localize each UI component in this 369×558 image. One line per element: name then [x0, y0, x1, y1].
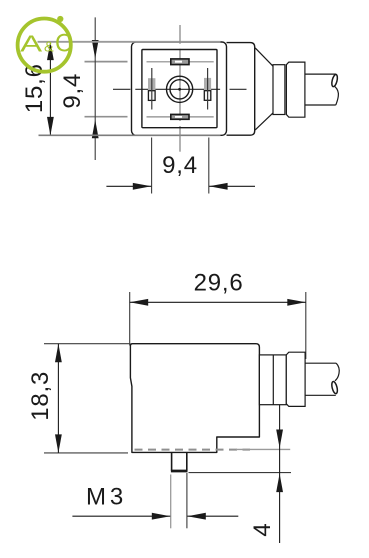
29,6: extension line right [305, 292, 307, 359]
gland taper lower [255, 113, 273, 130]
body side block [227, 43, 255, 136]
18,3: dimension line [55, 344, 62, 453]
gland section 1+2 bottom view [259, 355, 286, 405]
svg-text:4: 4 [249, 523, 276, 536]
svg-text:18,3: 18,3 [27, 371, 54, 421]
svg-text:&: & [44, 40, 54, 56]
29,6: extension line left [129, 292, 131, 346]
svg-text:9,4: 9,4 [162, 152, 198, 179]
slot centerline h upper right [189, 61, 213, 63]
bottom 9,4: extension line left [151, 138, 153, 194]
svg-text:3: 3 [110, 483, 123, 510]
slot centerline h lower left [147, 116, 171, 118]
slot centerline v left [151, 68, 153, 110]
gland cylinder [273, 65, 285, 115]
cable end arc bottom view [335, 363, 339, 381]
svg-text:M: M [86, 483, 106, 510]
cable end curl loop bottom view [331, 381, 339, 394]
logo circle [18, 18, 71, 71]
contact slot bottom [171, 114, 189, 119]
M3: extension line right [186, 473, 188, 528]
gasket dashed line [135, 449, 251, 451]
connector body outer square [132, 42, 227, 135]
center circle inner [170, 80, 189, 99]
M3: dimension line [72, 513, 238, 520]
cable bottom line bottom view [305, 394, 336, 396]
contact slot top [171, 59, 189, 65]
cable bottom line [305, 104, 336, 106]
extension line top (15,6 upper) [38, 41, 221, 43]
cable top line bottom view [305, 362, 336, 364]
inner square [142, 50, 217, 128]
gland nut [286, 62, 305, 117]
svg-text:A: A [20, 30, 42, 56]
screw end cap [171, 470, 188, 473]
slot centerline v right [207, 68, 209, 110]
horizontal centerline [113, 88, 247, 90]
body outline [130, 344, 259, 453]
extension line (9,4 upper) [85, 61, 128, 63]
gland taper upper [255, 48, 273, 66]
cable end curl loop [331, 74, 339, 87]
gland nut bottom view [286, 352, 305, 406]
18,3: extension line bottom [44, 452, 128, 454]
M3: extension line left [170, 475, 172, 529]
logo dot on ring [57, 16, 63, 22]
slot centerline h lower right [189, 116, 213, 118]
extension line bottom (15,6 lower) [39, 134, 221, 136]
4: extension line upper (gasket level) [236, 448, 290, 450]
18,3: extension line top [44, 343, 130, 345]
4: extension line lower (screw end level) [189, 472, 292, 474]
bottom 9,4: extension line right [208, 138, 210, 194]
slot centerline h upper left [147, 61, 171, 63]
center circle outer [167, 76, 193, 102]
dimension line 9,4 vertical [92, 17, 99, 160]
dimension line 15,6 [47, 42, 54, 136]
29,6: dimension line [130, 299, 306, 306]
cable end arc [335, 87, 339, 105]
center dot [178, 88, 181, 91]
svg-text:9,4: 9,4 [59, 73, 86, 109]
screw right edge [186, 452, 188, 470]
extension line (9,4 lower) [85, 116, 128, 118]
contact slot right [204, 78, 211, 100]
vertical centerline [179, 25, 181, 152]
svg-text:29,6: 29,6 [194, 269, 244, 296]
gland section divider [272, 355, 274, 405]
screw left edge [171, 452, 173, 470]
cable top line [305, 73, 336, 75]
contact slot left [148, 78, 155, 100]
4: dimension line [276, 405, 283, 544]
bottom 9,4: dimension line [106, 183, 255, 190]
svg-text:C: C [55, 30, 73, 58]
